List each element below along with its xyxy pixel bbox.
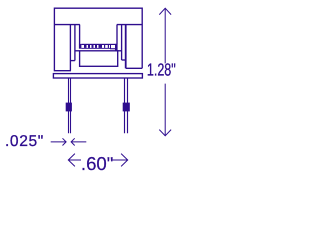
right bracket outer vertical <box>125 25 127 69</box>
right bracket shelf line <box>126 67 143 69</box>
svg-text:.60": .60" <box>81 153 113 174</box>
tooth 4 <box>95 45 97 48</box>
left pin outline <box>69 78 71 133</box>
right pin outline <box>125 78 128 133</box>
outer case body (open bottom) <box>54 8 142 70</box>
dimension 1.28 vertical line <box>51 8 171 166</box>
right bracket middle vertical <box>121 25 123 60</box>
left bracket tick <box>70 60 75 62</box>
tooth 5 wide <box>99 45 103 48</box>
flange <box>53 74 142 78</box>
right pin solder block <box>123 103 130 112</box>
left bracket outer vertical <box>69 25 71 71</box>
comb top bar <box>81 44 117 45</box>
end box left wall <box>110 45 111 49</box>
tooth 6 <box>104 45 105 48</box>
left pin solder block <box>66 103 72 112</box>
dim .60 arrow left-pointing <box>68 154 81 167</box>
arrowhead up <box>159 8 171 14</box>
dim .60 arrow right-pointing <box>112 154 128 167</box>
right bracket top line <box>117 24 142 26</box>
tooth 3 <box>92 45 94 48</box>
svg-text:.025": .025" <box>5 133 44 150</box>
left bracket middle vertical <box>74 25 76 61</box>
arrowhead down <box>159 130 171 136</box>
block top extension right <box>118 50 122 52</box>
comb right end block <box>115 44 118 51</box>
tooth 2 <box>88 45 90 48</box>
block top extension left <box>75 50 80 52</box>
tooth 7 <box>108 45 109 48</box>
right bracket tick <box>122 59 126 61</box>
comb bottom bar <box>81 47 110 50</box>
left bracket inner vertical <box>79 25 81 45</box>
left bracket top line <box>54 24 80 26</box>
comb teeth (filled) <box>66 44 130 112</box>
comb left end block <box>79 44 82 49</box>
tooth 1 <box>84 45 87 48</box>
right bracket inner vertical <box>116 25 118 45</box>
dimension labels <box>5 60 176 174</box>
dim .025 arrow right-pointing <box>51 138 66 145</box>
dim .025 arrow left-pointing <box>71 138 86 145</box>
end box bottom bar <box>110 48 115 49</box>
coil block <box>80 51 118 67</box>
svg-text:1.28": 1.28" <box>147 60 176 80</box>
